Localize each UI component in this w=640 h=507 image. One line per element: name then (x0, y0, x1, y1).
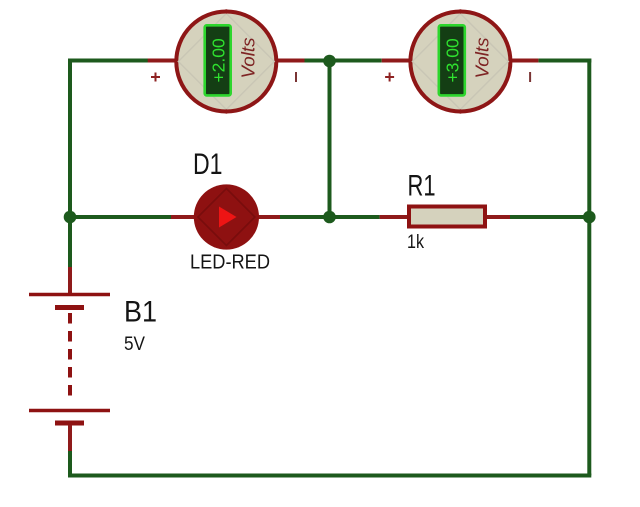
pin stub LED anode (171, 215, 196, 219)
junction top (meters/center branch) (323, 55, 336, 68)
pin stub R1 right (486, 215, 510, 219)
voltmeter VM2 LCD display (439, 25, 465, 95)
voltmeter VM1 (151, 9, 296, 113)
junction mid left (64, 211, 77, 224)
wire battery bottom to bottom rail (68, 449, 72, 477)
wire left vertical (battery branch) (68, 59, 72, 270)
svg-text:R1: R1 (408, 170, 436, 203)
pin stub voltmeter2 - (512, 59, 538, 63)
pin stub voltmeter2 + (382, 59, 409, 63)
junction mid center (323, 211, 336, 224)
battery B1 top long plate (29, 293, 110, 297)
battery B1 dashed link (68, 313, 72, 399)
pin stub voltmeter1 - (278, 59, 305, 63)
wire right vertical (587, 59, 591, 476)
wire top left horizontal (68, 59, 148, 63)
svg-text:+2.00: +2.00 (208, 38, 228, 83)
svg-text:+3.00: +3.00 (442, 38, 462, 83)
battery B1 bottom short plate (55, 421, 84, 426)
LED D1 (194, 184, 259, 249)
LED D1 body (194, 184, 259, 249)
svg-text:Volts: Volts (473, 38, 493, 79)
svg-text:B1: B1 (124, 296, 157, 329)
voltmeter VM2 minus mark (529, 72, 531, 82)
LED D1 triangle (219, 207, 237, 228)
wire top middle (between meters) (305, 59, 382, 63)
pin stub LED cathode (258, 215, 281, 219)
voltmeter VM2 face (410, 12, 510, 112)
voltmeter VM1 diamond (178, 14, 274, 110)
wire mid rail left segment (70, 215, 171, 219)
resistor R1 (409, 207, 485, 227)
battery B1 bottom long plate (29, 409, 110, 413)
voltmeter VM1 plus mark (151, 73, 160, 82)
voltmeter VM2 bottom nub (458, 109, 462, 113)
voltmeter VM1 face (176, 12, 276, 112)
wire mid rail right segment (510, 215, 589, 219)
battery B1 bottom pin stub (68, 425, 72, 451)
wire top right (538, 59, 591, 63)
voltmeter VM1 top nub (224, 9, 228, 13)
voltmeter VM1 bottom nub (224, 109, 228, 113)
battery B1 top short plate (55, 305, 84, 310)
junction mid right (583, 211, 596, 224)
voltmeter VM2 diamond (412, 14, 508, 110)
voltmeter VM2 top nub (458, 9, 462, 13)
wire center vertical (meter junction to mid rail) (328, 61, 332, 217)
voltmeter VM1 LCD display (205, 25, 231, 95)
voltmeter VM2 plus mark (385, 73, 394, 82)
LED D1 diamond (198, 189, 255, 246)
svg-text:Volts: Volts (239, 38, 259, 79)
svg-text:D1: D1 (193, 148, 223, 181)
battery B1 top pin stub (68, 267, 72, 293)
svg-text:5V: 5V (124, 334, 145, 355)
svg-text:LED-RED: LED-RED (190, 252, 270, 274)
battery B1 (29, 267, 110, 451)
wire bottom horizontal (68, 474, 591, 478)
svg-text:1k: 1k (407, 232, 424, 253)
wire mid rail center segment (280, 215, 380, 219)
pin stub voltmeter1 + (148, 59, 175, 63)
voltmeter VM2 (385, 9, 530, 113)
voltmeter VM1 minus mark (295, 72, 297, 82)
pin stub R1 left (380, 215, 408, 219)
